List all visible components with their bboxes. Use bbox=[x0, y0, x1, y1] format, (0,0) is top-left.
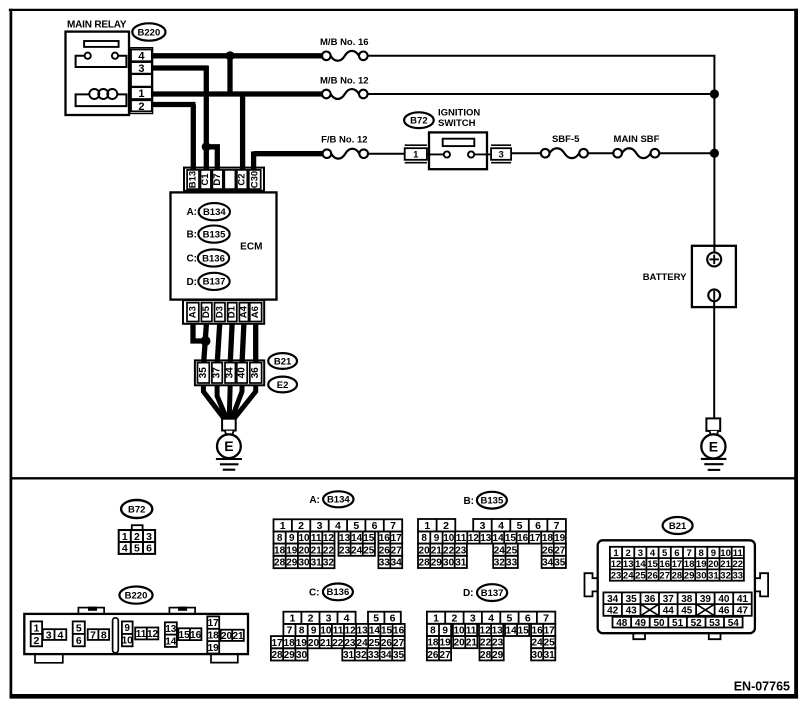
svg-text:9: 9 bbox=[711, 548, 716, 559]
wire A6 to pin36 bbox=[253, 324, 258, 364]
svg-text:A:: A: bbox=[309, 495, 320, 506]
svg-text:9: 9 bbox=[124, 623, 130, 634]
svg-text:4: 4 bbox=[138, 50, 145, 62]
svg-text:B136: B136 bbox=[327, 587, 350, 598]
svg-text:9: 9 bbox=[289, 533, 295, 544]
svg-text:4: 4 bbox=[650, 548, 656, 559]
svg-text:C1: C1 bbox=[200, 173, 211, 186]
svg-text:E: E bbox=[709, 438, 718, 454]
svg-text:B135: B135 bbox=[481, 496, 504, 507]
ECM pin A6 bbox=[250, 303, 262, 322]
svg-text:5: 5 bbox=[517, 520, 523, 532]
wire relay3 right bbox=[152, 65, 208, 70]
svg-text:10: 10 bbox=[320, 626, 332, 637]
svg-text:20: 20 bbox=[454, 638, 466, 649]
relay terminal column bbox=[130, 48, 153, 114]
connector B135 pin group bbox=[418, 519, 455, 532]
border frame top bbox=[9, 9, 798, 11]
connector B72 pin group bbox=[119, 530, 155, 555]
svg-text:31: 31 bbox=[544, 650, 556, 661]
svg-text:2: 2 bbox=[443, 520, 449, 532]
ignition connector bars pin3 bbox=[491, 144, 511, 146]
svg-text:36: 36 bbox=[250, 367, 261, 379]
svg-text:24: 24 bbox=[494, 545, 506, 556]
ground pin 35 bbox=[198, 363, 210, 383]
svg-text:B137: B137 bbox=[481, 588, 504, 599]
svg-text:34: 34 bbox=[542, 558, 554, 569]
svg-text:B135: B135 bbox=[203, 229, 226, 240]
svg-text:13: 13 bbox=[165, 624, 177, 635]
ECM pin C2 bbox=[237, 170, 247, 189]
relay pin 3 bbox=[131, 62, 152, 74]
wire D1 to pin34 bbox=[230, 324, 232, 364]
ECM pin blank top bbox=[224, 170, 235, 189]
relay pin 2 bbox=[131, 100, 152, 111]
svg-text:9: 9 bbox=[311, 626, 317, 637]
svg-text:2: 2 bbox=[626, 548, 631, 559]
svg-text:B13: B13 bbox=[188, 171, 199, 188]
B21 blocked cavity bbox=[641, 604, 660, 616]
svg-text:43: 43 bbox=[626, 606, 638, 617]
svg-text:53: 53 bbox=[709, 618, 721, 629]
svg-text:37: 37 bbox=[212, 367, 223, 379]
svg-text:11: 11 bbox=[136, 629, 147, 640]
ground terminal box left bbox=[222, 419, 236, 431]
svg-text:22: 22 bbox=[323, 545, 335, 556]
ground node E right bbox=[701, 434, 725, 458]
svg-text:6: 6 bbox=[146, 543, 152, 555]
ignition pin 1 bbox=[405, 148, 427, 160]
svg-text:4: 4 bbox=[344, 613, 350, 625]
svg-text:42: 42 bbox=[607, 606, 619, 617]
svg-text:10: 10 bbox=[122, 636, 134, 647]
connector B134 pin group bbox=[378, 532, 402, 545]
connector B136 pin group bbox=[271, 648, 308, 661]
fuse SBF-5 bbox=[550, 148, 580, 158]
svg-text:31: 31 bbox=[311, 558, 323, 569]
svg-text:18: 18 bbox=[542, 533, 554, 544]
svg-text:15: 15 bbox=[381, 626, 393, 637]
ignition switch contact left bbox=[444, 151, 450, 157]
svg-text:25: 25 bbox=[363, 545, 375, 556]
svg-text:46: 46 bbox=[718, 606, 730, 617]
svg-text:31: 31 bbox=[708, 571, 719, 582]
ECM body U2 bbox=[171, 192, 277, 299]
connector B136 pin group bbox=[271, 636, 405, 649]
svg-text:13: 13 bbox=[357, 626, 369, 637]
svg-text:3: 3 bbox=[317, 520, 323, 532]
svg-text:BATTERY: BATTERY bbox=[643, 272, 687, 283]
svg-text:15: 15 bbox=[363, 533, 375, 544]
svg-text:B21: B21 bbox=[274, 356, 292, 367]
svg-text:15: 15 bbox=[518, 626, 530, 637]
connector B134 pin group bbox=[274, 519, 403, 532]
svg-text:16: 16 bbox=[659, 559, 670, 570]
connector B136 pin group bbox=[342, 648, 404, 661]
svg-text:1: 1 bbox=[424, 520, 430, 532]
ground neck left bbox=[225, 431, 234, 436]
svg-text:39: 39 bbox=[700, 594, 712, 605]
connector label oval B220 (pinout) bbox=[119, 587, 152, 604]
svg-text:1: 1 bbox=[280, 520, 286, 532]
svg-text:10: 10 bbox=[453, 626, 465, 637]
svg-text:5: 5 bbox=[134, 543, 140, 555]
svg-text:20: 20 bbox=[308, 638, 320, 649]
junction A3/D5 bbox=[201, 336, 211, 346]
connector B220 tab right bbox=[169, 608, 195, 614]
fuse M/B No. 16 bbox=[331, 51, 359, 61]
svg-text:22: 22 bbox=[332, 638, 344, 649]
wire MB16 to battery vertical bbox=[368, 56, 715, 253]
ground neck right bbox=[710, 431, 719, 436]
svg-text:2: 2 bbox=[451, 613, 457, 625]
junction C1/D7 bbox=[202, 142, 211, 151]
connector label oval B72 (ignition) bbox=[404, 112, 434, 128]
wire MB12 to battery vertical bbox=[368, 93, 715, 95]
connector label oval B21 (pinout) bbox=[663, 517, 693, 534]
svg-text:44: 44 bbox=[663, 606, 675, 617]
wire relay2 down to B13 bbox=[191, 105, 196, 170]
connector B21 pin group bbox=[613, 617, 743, 629]
connector B135 pin group bbox=[473, 519, 566, 532]
svg-text:B137: B137 bbox=[203, 277, 226, 288]
svg-text:24: 24 bbox=[351, 545, 363, 556]
svg-text:27: 27 bbox=[554, 545, 566, 556]
svg-text:3: 3 bbox=[138, 63, 144, 75]
svg-text:4: 4 bbox=[488, 613, 494, 625]
ECM top connector shell bbox=[184, 168, 264, 191]
svg-text:18: 18 bbox=[427, 638, 439, 649]
svg-text:14: 14 bbox=[506, 626, 518, 637]
svg-text:20: 20 bbox=[419, 545, 431, 556]
connector B220 pin group bbox=[207, 616, 219, 654]
connector label oval B220 (relay) bbox=[132, 23, 165, 40]
relay coil L1 bbox=[89, 89, 99, 99]
battery negative terminal bbox=[708, 289, 720, 301]
wire relay4 to fuse MB16 bbox=[152, 53, 322, 58]
svg-text:D:: D: bbox=[186, 277, 197, 288]
ground pin 37 bbox=[212, 363, 222, 383]
svg-text:10: 10 bbox=[720, 548, 731, 559]
svg-text:27: 27 bbox=[440, 650, 452, 661]
svg-text:2: 2 bbox=[134, 531, 140, 543]
ECM pin D5 bbox=[201, 303, 212, 322]
svg-text:16: 16 bbox=[517, 533, 529, 544]
svg-text:2: 2 bbox=[33, 635, 39, 647]
svg-text:4: 4 bbox=[498, 520, 504, 532]
relay contact terminal right bbox=[112, 53, 118, 59]
svg-text:36: 36 bbox=[644, 594, 656, 605]
battery positive terminal bbox=[707, 252, 721, 266]
svg-text:30: 30 bbox=[532, 650, 544, 661]
svg-text:35: 35 bbox=[626, 594, 638, 605]
fuse F/B No. 12 bbox=[331, 149, 359, 159]
svg-text:11: 11 bbox=[333, 626, 344, 637]
connector label oval B21 (top) bbox=[268, 353, 297, 369]
svg-text:1: 1 bbox=[138, 88, 144, 100]
svg-text:33: 33 bbox=[368, 650, 380, 661]
svg-text:3: 3 bbox=[638, 548, 643, 559]
svg-text:A3: A3 bbox=[187, 306, 198, 318]
svg-text:34: 34 bbox=[225, 367, 236, 379]
connector B134 pin group bbox=[378, 544, 402, 557]
svg-text:17: 17 bbox=[391, 533, 403, 544]
svg-text:34: 34 bbox=[391, 558, 403, 569]
connector B220 pin group bbox=[135, 628, 158, 641]
svg-text:23: 23 bbox=[344, 638, 356, 649]
connector B21 tab right bbox=[755, 573, 768, 596]
wire jog to D7 bbox=[206, 147, 217, 170]
wire A4 to pin40 bbox=[242, 324, 244, 364]
connector B220 pin group bbox=[88, 629, 109, 641]
connector B137 pin group bbox=[427, 612, 555, 625]
svg-text:28: 28 bbox=[419, 558, 431, 569]
svg-text:30: 30 bbox=[443, 558, 455, 569]
svg-text:12: 12 bbox=[345, 626, 357, 637]
connector B134 pin group bbox=[274, 556, 335, 569]
svg-text:12: 12 bbox=[468, 533, 480, 544]
ground terminal box right bbox=[706, 418, 720, 431]
svg-text:28: 28 bbox=[274, 558, 286, 569]
connector B220 shell bbox=[24, 614, 248, 654]
relay coil L2 bbox=[98, 89, 108, 99]
ECM pin B13 bbox=[187, 170, 199, 189]
svg-text:19: 19 bbox=[208, 643, 220, 654]
relay pin blank bbox=[131, 74, 152, 86]
svg-text:35: 35 bbox=[393, 650, 405, 661]
svg-text:B220: B220 bbox=[125, 590, 148, 601]
ground pin 36 bbox=[250, 363, 262, 383]
connector B134 pin group bbox=[274, 544, 335, 557]
svg-text:29: 29 bbox=[431, 558, 443, 569]
svg-text:21: 21 bbox=[232, 631, 244, 642]
svg-text:14: 14 bbox=[165, 636, 177, 647]
svg-text:16: 16 bbox=[379, 533, 391, 544]
connector B137 pin group bbox=[479, 624, 503, 637]
connector B72 tab bbox=[132, 525, 143, 530]
svg-text:D1: D1 bbox=[227, 305, 238, 318]
svg-text:17: 17 bbox=[208, 618, 220, 629]
B21 blocked cavity bbox=[696, 604, 715, 616]
svg-text:17: 17 bbox=[271, 638, 283, 649]
svg-text:51: 51 bbox=[672, 618, 684, 629]
svg-text:A4: A4 bbox=[238, 305, 249, 318]
svg-text:30: 30 bbox=[298, 558, 310, 569]
wire pin37 to ground node bbox=[217, 385, 227, 419]
svg-text:7: 7 bbox=[554, 520, 560, 532]
svg-text:A:: A: bbox=[186, 207, 197, 218]
svg-text:6: 6 bbox=[390, 613, 396, 625]
svg-text:18: 18 bbox=[274, 545, 286, 556]
svg-text:1: 1 bbox=[433, 613, 439, 625]
wire FB12 to ignition bbox=[368, 153, 405, 155]
connector B137 pin group bbox=[505, 624, 529, 637]
svg-text:18: 18 bbox=[684, 559, 695, 570]
svg-text:13: 13 bbox=[492, 626, 504, 637]
svg-text:E: E bbox=[224, 438, 233, 454]
svg-text:3: 3 bbox=[146, 531, 152, 543]
connector B134 pin group bbox=[339, 532, 375, 545]
wire D3 to pin37 bbox=[217, 324, 220, 364]
connector B220 key slot bbox=[113, 618, 119, 653]
svg-text:3: 3 bbox=[326, 613, 332, 625]
svg-text:EN-07765: EN-07765 bbox=[734, 680, 790, 694]
ground pin 34 bbox=[225, 363, 235, 383]
svg-text:25: 25 bbox=[369, 638, 381, 649]
svg-text:8: 8 bbox=[430, 626, 436, 637]
connector B220 pin group bbox=[165, 622, 177, 647]
svg-text:20: 20 bbox=[221, 631, 233, 642]
svg-text:22: 22 bbox=[480, 638, 492, 649]
fuse M/B No. 12 bbox=[331, 89, 359, 99]
svg-text:10: 10 bbox=[298, 533, 310, 544]
svg-text:7: 7 bbox=[287, 626, 293, 637]
svg-text:ECM: ECM bbox=[240, 242, 262, 253]
svg-text:26: 26 bbox=[427, 650, 439, 661]
svg-text:25: 25 bbox=[506, 545, 518, 556]
connector B137 pin group bbox=[531, 648, 555, 661]
svg-text:16: 16 bbox=[532, 626, 544, 637]
svg-text:31: 31 bbox=[455, 558, 467, 569]
svg-text:11: 11 bbox=[466, 626, 477, 637]
wire pin34 to ground node bbox=[229, 385, 230, 419]
svg-text:34: 34 bbox=[607, 594, 619, 605]
svg-text:B72: B72 bbox=[128, 504, 145, 515]
svg-text:54: 54 bbox=[728, 618, 740, 629]
svg-text:4: 4 bbox=[122, 543, 128, 555]
svg-text:C30: C30 bbox=[249, 171, 260, 188]
svg-text:14: 14 bbox=[351, 533, 363, 544]
connector B220 pin group bbox=[178, 628, 201, 641]
svg-text:1: 1 bbox=[613, 548, 619, 559]
svg-text:7: 7 bbox=[543, 613, 549, 625]
svg-text:2: 2 bbox=[298, 520, 304, 532]
svg-text:30: 30 bbox=[296, 650, 308, 661]
svg-text:41: 41 bbox=[737, 594, 749, 605]
svg-text:15: 15 bbox=[505, 533, 517, 544]
ground connector shell bbox=[195, 360, 264, 385]
svg-text:1: 1 bbox=[122, 531, 128, 543]
connector B21 foot right bbox=[709, 633, 721, 639]
svg-text:21: 21 bbox=[466, 638, 478, 649]
svg-text:21: 21 bbox=[320, 638, 332, 649]
section divider line bbox=[10, 477, 796, 479]
svg-text:29: 29 bbox=[286, 558, 298, 569]
svg-text:52: 52 bbox=[691, 618, 703, 629]
svg-text:M/B No. 12: M/B No. 12 bbox=[320, 76, 369, 87]
relay coil L3 bbox=[107, 89, 117, 99]
connector B21 pin group bbox=[603, 592, 751, 616]
connector B137 pin group bbox=[453, 624, 477, 637]
connector B137 pin group bbox=[480, 648, 504, 661]
svg-text:11: 11 bbox=[733, 548, 744, 559]
ground pin 40 bbox=[237, 363, 247, 383]
wire C30 to fuse FB12 bbox=[254, 151, 323, 156]
svg-text:B134: B134 bbox=[203, 207, 226, 218]
svg-text:3: 3 bbox=[480, 520, 486, 532]
svg-text:A6: A6 bbox=[250, 306, 261, 318]
svg-text:40: 40 bbox=[237, 367, 248, 379]
relay frame bar bbox=[84, 41, 119, 47]
svg-text:3: 3 bbox=[470, 613, 476, 625]
svg-text:25: 25 bbox=[544, 638, 556, 649]
connector B135 pin group bbox=[418, 531, 566, 544]
svg-text:33: 33 bbox=[733, 571, 744, 582]
svg-text:27: 27 bbox=[659, 571, 670, 582]
svg-text:21: 21 bbox=[431, 545, 443, 556]
connector B136 pin group bbox=[283, 624, 404, 637]
svg-text:12: 12 bbox=[611, 559, 622, 570]
svg-text:D3: D3 bbox=[214, 306, 225, 318]
connector B135 pin group bbox=[542, 556, 566, 569]
ECM pin D7 bbox=[212, 170, 222, 189]
svg-text:27: 27 bbox=[391, 545, 403, 556]
svg-text:5: 5 bbox=[373, 613, 379, 625]
ignition connector bars pin1 bbox=[405, 144, 427, 146]
svg-text:19: 19 bbox=[286, 545, 298, 556]
connector label oval B72 (pinout) bbox=[121, 500, 152, 518]
svg-text:26: 26 bbox=[542, 545, 554, 556]
svg-text:38: 38 bbox=[681, 594, 693, 605]
connector B220 pin group bbox=[31, 621, 42, 647]
connector B134 pin group bbox=[378, 556, 402, 569]
wire pin36 to ground node bbox=[234, 385, 256, 419]
svg-text:16: 16 bbox=[190, 630, 202, 641]
svg-text:7: 7 bbox=[390, 520, 396, 532]
svg-text:12: 12 bbox=[480, 626, 492, 637]
svg-text:24: 24 bbox=[623, 571, 634, 582]
connector B220 pin group bbox=[43, 629, 67, 641]
svg-text:19: 19 bbox=[696, 559, 707, 570]
wire C30 up bbox=[251, 151, 256, 169]
svg-text:8: 8 bbox=[277, 533, 283, 544]
svg-text:23: 23 bbox=[455, 545, 467, 556]
svg-text:28: 28 bbox=[672, 571, 683, 582]
svg-text:6: 6 bbox=[76, 635, 82, 647]
ECM pin C30 bbox=[249, 170, 261, 189]
svg-text:28: 28 bbox=[271, 650, 283, 661]
svg-text:M/B No. 16: M/B No. 16 bbox=[320, 37, 369, 48]
svg-text:32: 32 bbox=[355, 650, 367, 661]
svg-text:D5: D5 bbox=[201, 305, 212, 318]
svg-text:C:: C: bbox=[309, 588, 320, 599]
ignition pin 3 bbox=[491, 148, 511, 160]
svg-text:13: 13 bbox=[339, 533, 351, 544]
svg-text:19: 19 bbox=[440, 638, 452, 649]
svg-text:21: 21 bbox=[720, 559, 731, 570]
svg-text:B21: B21 bbox=[669, 521, 687, 532]
junction MB12/battery bbox=[710, 89, 719, 98]
svg-text:6: 6 bbox=[535, 520, 541, 532]
svg-text:3: 3 bbox=[498, 149, 503, 160]
connector label oval E2 bbox=[268, 377, 297, 393]
svg-text:22: 22 bbox=[733, 559, 744, 570]
svg-text:B:: B: bbox=[463, 496, 474, 507]
svg-text:9: 9 bbox=[442, 626, 448, 637]
relay pin 4 bbox=[131, 50, 152, 62]
svg-text:13: 13 bbox=[623, 559, 634, 570]
svg-text:26: 26 bbox=[381, 638, 393, 649]
svg-text:15: 15 bbox=[647, 559, 658, 570]
ignition switch contact right bbox=[468, 151, 474, 157]
svg-text:5: 5 bbox=[76, 622, 82, 634]
svg-text:18: 18 bbox=[284, 638, 296, 649]
svg-text:32: 32 bbox=[494, 558, 506, 569]
wire drop to C2 bbox=[240, 94, 245, 170]
wire A3 to junction bbox=[193, 324, 204, 341]
connector B137 pin group bbox=[427, 648, 451, 661]
connector B137 pin group bbox=[453, 636, 477, 649]
